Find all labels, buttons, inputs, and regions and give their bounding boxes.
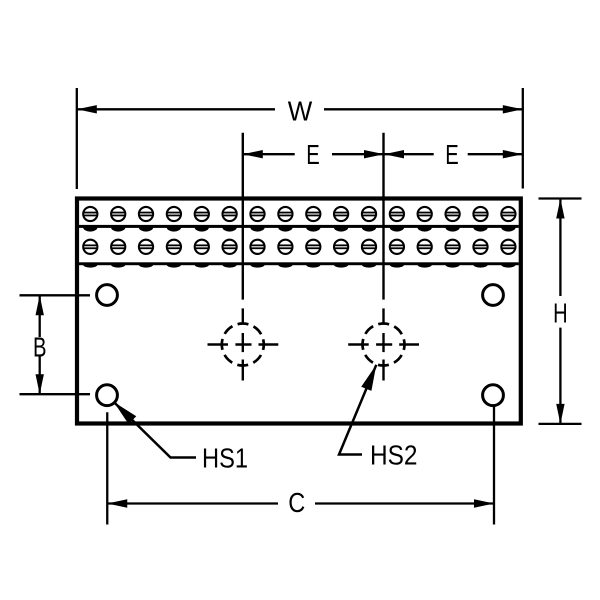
svg-text:HS2: HS2	[370, 440, 418, 471]
svg-text:B: B	[33, 331, 47, 362]
svg-text:C: C	[288, 487, 305, 518]
svg-text:HS1: HS1	[202, 443, 248, 474]
svg-text:E: E	[306, 139, 320, 170]
svg-text:W: W	[288, 95, 313, 126]
svg-text:H: H	[553, 298, 568, 329]
svg-text:E: E	[445, 139, 459, 170]
